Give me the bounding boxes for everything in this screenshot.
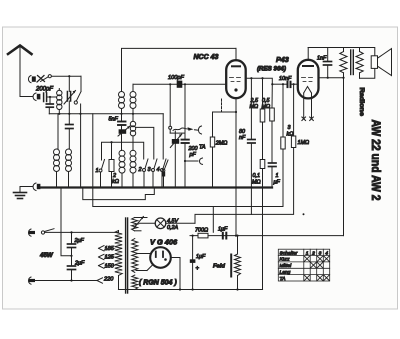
svg-text:P43: P43 xyxy=(276,55,289,64)
svg-text:1nF: 1nF xyxy=(317,56,327,62)
svg-text:Mittel: Mittel xyxy=(280,263,293,269)
capacitor 1uF (bias) xyxy=(269,163,277,188)
tube NCC43 xyxy=(226,48,246,98)
svg-text:MΩ: MΩ xyxy=(252,180,261,186)
node 185,161 xyxy=(184,160,186,162)
antenna plug J1 xyxy=(33,93,40,101)
wire down from node xyxy=(68,76,70,91)
3k wire up xyxy=(282,84,284,137)
svg-text:125: 125 xyxy=(105,255,115,261)
wire antenna to plug xyxy=(20,96,33,98)
grid line y84.3 xyxy=(133,83,177,85)
node bus 251.4 xyxy=(250,186,252,188)
node 121.5,113.8 xyxy=(120,113,122,115)
node 251.4,78.2 xyxy=(250,77,252,79)
node 293.6,84.2 xyxy=(293,83,295,85)
svg-text:TA: TA xyxy=(280,276,286,282)
capacitor 1nF xyxy=(324,48,332,78)
switch rail y127.4 xyxy=(136,127,154,159)
svg-text:( RGN 504 ): ( RGN 504 ) xyxy=(139,280,177,287)
svg-text:5nF: 5nF xyxy=(109,117,119,123)
wire to NCC grid xyxy=(182,83,226,85)
switch S4 xyxy=(157,114,167,188)
svg-text:1MΩ: 1MΩ xyxy=(298,140,310,146)
output transformer secondary xyxy=(356,48,363,79)
svg-text:45W: 45W xyxy=(39,252,54,259)
svg-text:(RES 964): (RES 964) xyxy=(257,66,286,73)
node 237.5,289.5 xyxy=(236,288,238,290)
svg-text:150: 150 xyxy=(105,263,115,269)
coil L2a (lower left) xyxy=(54,149,60,188)
capacitor 2uF upper xyxy=(68,232,76,255)
capacitor 1uF (B+) series xyxy=(222,232,228,240)
P43 heater pins xyxy=(302,93,313,121)
svg-text:2: 2 xyxy=(311,250,315,256)
power transformer core xyxy=(126,218,128,293)
band switch S0 xyxy=(74,76,81,187)
capacitor (series on x69.3) xyxy=(66,125,73,150)
capacitor 100pF xyxy=(177,81,183,88)
svg-text:1μF: 1μF xyxy=(196,254,206,260)
capacitor 200pF (TA) xyxy=(182,84,189,187)
node 343.5,77.7 xyxy=(342,77,344,79)
svg-text:0,2A: 0,2A xyxy=(167,225,178,231)
svg-text:2μF: 2μF xyxy=(74,238,85,244)
svg-text:MΩ: MΩ xyxy=(250,104,259,110)
150 tap xyxy=(99,263,116,269)
185 tap xyxy=(99,246,116,252)
node 185,84.3 xyxy=(184,83,186,85)
ground wire left xyxy=(20,186,33,188)
node 69.3,113.8 xyxy=(68,113,70,115)
node at 50,97 xyxy=(49,96,51,98)
ground plug xyxy=(33,183,40,191)
svg-text:Radione: Radione xyxy=(358,88,365,117)
pilot lamp xyxy=(138,218,195,229)
trimmer capacitor C-trim1 xyxy=(64,91,76,125)
svg-text:100pF: 100pF xyxy=(168,75,184,81)
transformer core xyxy=(351,50,354,75)
svg-text:Schalter: Schalter xyxy=(280,250,298,256)
reaction coil L5 xyxy=(130,114,135,151)
svg-text:1: 1 xyxy=(306,250,309,256)
svg-text:μF: μF xyxy=(273,180,281,186)
resistor 2k xyxy=(109,142,119,187)
IF coil L3b xyxy=(130,84,136,114)
wire L1 to lower coil xyxy=(57,114,59,149)
node 170.2,84.3 xyxy=(169,83,171,85)
power transformer primary xyxy=(115,231,122,290)
node 262.5,78.2 xyxy=(261,77,263,79)
stray dot xyxy=(303,213,305,215)
capacitor 5nF xyxy=(118,114,126,130)
table texts xyxy=(280,250,329,281)
switch table xyxy=(278,249,329,281)
IF coil L3a xyxy=(119,92,125,120)
svg-text:Feld: Feld xyxy=(213,264,225,270)
bottom mains wire xyxy=(28,277,97,284)
svg-text:V G 406: V G 406 xyxy=(150,238,178,247)
svg-text:Kurz: Kurz xyxy=(280,257,291,263)
resistor 2M xyxy=(210,112,227,188)
capacitor 80nF on x251.4 xyxy=(248,78,255,214)
125 tap xyxy=(99,254,116,260)
padding trimmer (solid) with arrow xyxy=(118,126,130,151)
svg-text:+: + xyxy=(196,266,200,272)
main ground bus xyxy=(41,186,273,188)
node 272.3,84.2 xyxy=(271,83,273,85)
node 192.6,235.6 xyxy=(192,235,194,237)
B+ wire y235.6 xyxy=(190,235,344,237)
TA input circle xyxy=(169,84,185,133)
ground symbol xyxy=(14,187,27,199)
wire cap to coil xyxy=(47,96,56,98)
return wire U1 below bus xyxy=(83,188,155,200)
coil L2b (lower right) xyxy=(66,149,72,188)
svg-text:3: 3 xyxy=(319,250,322,256)
node 283,84.2 xyxy=(282,83,284,85)
top long line (AVC/plate) xyxy=(122,48,237,91)
tube P43 xyxy=(298,48,319,99)
svg-text:2: 2 xyxy=(138,167,142,173)
VG406 output wire xyxy=(171,258,180,290)
svg-text:220: 220 xyxy=(103,277,114,283)
svg-text:NCC 43: NCC 43 xyxy=(194,54,219,61)
1M wire up xyxy=(293,84,295,136)
NCC43 anode line xyxy=(246,78,273,84)
node 192.6,289.5 xyxy=(192,288,194,290)
small switch S5 xyxy=(162,160,168,188)
field coil Feld xyxy=(231,236,240,290)
node 71.5,280.5 xyxy=(70,279,72,281)
antenna coil L1 xyxy=(57,89,62,114)
speaker xyxy=(371,49,391,76)
output transformer primary xyxy=(340,48,347,236)
svg-text:4: 4 xyxy=(325,250,328,256)
switch rail y142.2 xyxy=(102,142,144,160)
resistor 2,5M body on x262.5 xyxy=(260,78,265,159)
svg-text:700Ω: 700Ω xyxy=(195,228,208,234)
speaker frame wires xyxy=(360,48,375,57)
node at 69.3,76.2 xyxy=(68,75,70,77)
capacitor 200pF (series) xyxy=(44,93,47,102)
resistor 1M body xyxy=(291,136,295,148)
node 59.3,113.8 xyxy=(58,113,60,115)
antenna xyxy=(8,46,32,97)
resistor 0,1M body on x262.5 xyxy=(260,160,265,290)
resistor 0,5M body on x272 xyxy=(270,84,275,162)
resistor 700 ohm xyxy=(198,233,208,238)
node 133,113.8 xyxy=(132,113,134,115)
node circle (aerial selector) xyxy=(48,75,51,78)
node 236,235.6 xyxy=(235,235,237,237)
svg-text:kΩ: kΩ xyxy=(112,179,119,185)
svg-text:4,5V: 4,5V xyxy=(167,218,179,224)
node 71.5,255.8 xyxy=(70,255,72,257)
TA pickup arrow symbol xyxy=(173,126,202,134)
NCC43 cathode line xyxy=(235,98,237,235)
switch S1 xyxy=(96,160,105,188)
svg-text:3: 3 xyxy=(288,125,291,131)
switch S3 xyxy=(148,159,158,188)
trimmer capacitor near TA xyxy=(170,131,182,188)
capacitor 2uF lower xyxy=(68,256,76,281)
svg-text:2MΩ: 2MΩ xyxy=(215,141,228,147)
mains switch xyxy=(28,229,118,237)
svg-text:pF: pF xyxy=(189,152,197,158)
svg-text:1μF: 1μF xyxy=(218,227,228,233)
svg-text:0,1: 0,1 xyxy=(253,173,261,179)
heater winding top xyxy=(132,218,147,231)
wire bus to caps xyxy=(61,188,72,256)
capacitor to ground (left input) xyxy=(46,97,53,114)
grid coupling line with 10nF xyxy=(272,81,298,88)
osc coil L4a xyxy=(119,150,125,187)
220 tap arrow xyxy=(97,277,114,284)
node 180,289.5 xyxy=(179,288,181,290)
table X marks xyxy=(304,256,329,280)
anode winding xyxy=(132,239,138,273)
svg-text:1: 1 xyxy=(96,168,99,174)
upper input line (pickup) xyxy=(28,76,48,83)
svg-text:TA: TA xyxy=(199,145,206,151)
node 237.5,235.6 xyxy=(236,235,238,237)
grid leak wire y112 xyxy=(213,111,237,113)
svg-text:Lang: Lang xyxy=(280,269,291,275)
electrolytic 1uF xyxy=(190,236,200,290)
P43 anode line right xyxy=(319,77,344,79)
node 236,112 xyxy=(235,111,237,113)
wire selector to right xyxy=(51,75,81,77)
node 71.5,232.4 xyxy=(70,231,72,233)
svg-text:200pF: 200pF xyxy=(35,87,53,93)
svg-text:1: 1 xyxy=(276,173,279,179)
switch S2 xyxy=(138,159,149,188)
bottom DC wire xyxy=(119,289,263,291)
top line P43 to transformer xyxy=(308,47,359,49)
svg-text:nF: nF xyxy=(239,135,246,141)
long node line y113.8 xyxy=(49,113,163,115)
node 111.5,142.2 xyxy=(110,141,112,143)
rectifier tube VG406 xyxy=(136,247,171,270)
svg-text:AW 22 und AW 2: AW 22 und AW 2 xyxy=(369,120,383,201)
rheostat arrow xyxy=(134,217,144,229)
svg-text:185: 185 xyxy=(105,246,115,252)
node 327.7,77.7 xyxy=(327,77,329,79)
return wire L2 y206.5 xyxy=(93,114,283,207)
fork connector (phono) xyxy=(185,158,203,164)
return wire L3 y214.4 xyxy=(195,148,294,224)
node 80.5,113.8 xyxy=(79,113,81,115)
svg-text:kΩ: kΩ xyxy=(287,132,294,138)
osc coil L4b xyxy=(130,150,136,187)
dashed grid lead xyxy=(221,99,223,112)
vertical V4 xyxy=(212,207,214,233)
filament winding bottom xyxy=(132,275,138,289)
svg-text:4: 4 xyxy=(157,167,160,173)
node 236,187.5 xyxy=(235,186,237,188)
resistor 3k body xyxy=(281,137,285,149)
